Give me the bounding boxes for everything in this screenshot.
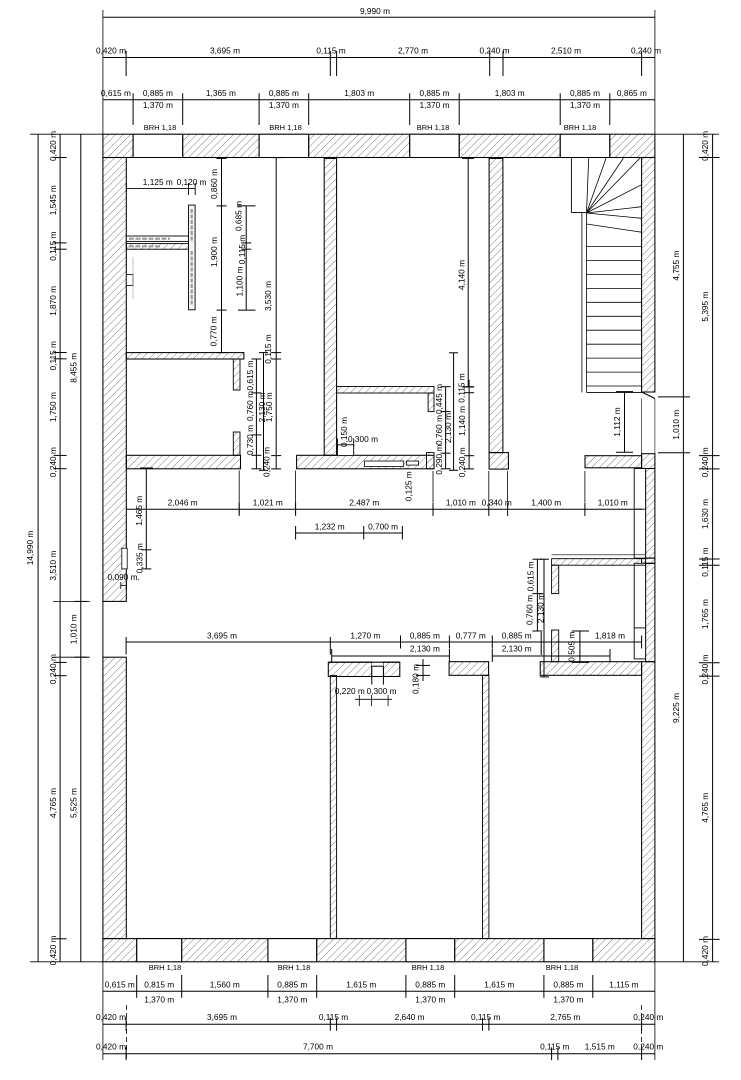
svg-text:1,115 m: 1,115 m: [609, 979, 638, 989]
svg-text:0,615 m: 0,615 m: [105, 979, 135, 989]
dim 1,112 stair: [624, 392, 626, 453]
left wall opening extension lines: [53, 600, 90, 602]
svg-text:2,487 m: 2,487 m: [349, 498, 379, 508]
hall band wall middle part: [297, 455, 434, 469]
lower band wall 2: [449, 662, 489, 676]
bottom dim chain B: [103, 1053, 655, 1055]
wall below top-middle room: [337, 387, 434, 394]
svg-text:1,010 m: 1,010 m: [446, 498, 476, 508]
svg-text:0,240 m: 0,240 m: [633, 1012, 663, 1022]
right wall outer shell at window 2: [646, 563, 655, 661]
svg-text:0,240 m: 0,240 m: [48, 447, 58, 477]
svg-text:0,885 m: 0,885 m: [553, 979, 583, 989]
lower interior wall A/B (vertical): [330, 675, 336, 938]
dashed extension line bottom-right: [641, 1005, 643, 1048]
svg-text:2,130 m: 2,130 m: [536, 593, 546, 623]
interior wall 0.24 (vertical, left of stair): [489, 158, 503, 452]
svg-text:2,770 m: 2,770 m: [398, 46, 428, 56]
svg-text:BRH 1,18: BRH 1,18: [278, 963, 311, 972]
right wall window 2 reveal box: [634, 563, 645, 659]
dim 0,180: [422, 659, 424, 681]
svg-text:2,130 m: 2,130 m: [257, 392, 267, 422]
svg-text:0,115 m: 0,115 m: [48, 231, 58, 260]
left dim chain L1: [59, 134, 61, 962]
door jamb upper (corridor wall): [233, 359, 240, 390]
right wall pier between windows: [642, 558, 655, 563]
top wall window openings (jambs and sill lines): [132, 134, 134, 157]
svg-text:0,860 m: 0,860 m: [209, 169, 219, 199]
svg-text:0,240 m: 0,240 m: [457, 447, 467, 477]
svg-text:0,115 m: 0,115 m: [319, 1012, 348, 1022]
svg-text:2,130 m: 2,130 m: [443, 413, 453, 443]
svg-text:1,370 m: 1,370 m: [553, 995, 583, 1005]
svg-text:0,115 m: 0,115 m: [263, 334, 273, 363]
terrace parapet band (right): [585, 456, 642, 468]
svg-text:0,685 m: 0,685 m: [234, 201, 244, 231]
svg-text:1,750 m: 1,750 m: [48, 392, 58, 422]
svg-text:1,100 m: 1,100 m: [235, 266, 245, 296]
svg-text:1,370 m: 1,370 m: [570, 100, 600, 110]
svg-text:0,615 m: 0,615 m: [245, 360, 255, 390]
svg-text:1,140 m: 1,140 m: [457, 406, 467, 436]
central interior wall (vertical): [324, 158, 336, 455]
svg-text:0,420 m: 0,420 m: [48, 131, 58, 161]
bottom dim chain windows row: [103, 990, 655, 992]
interior chain 0,685/0,115/1,100: [245, 206, 247, 310]
svg-text:1,465 m: 1,465 m: [134, 496, 144, 526]
row 641 sub left (2,130): [332, 655, 450, 657]
door jamb lower (corridor wall): [233, 432, 240, 455]
dim line 1,125/0,120: [126, 188, 195, 190]
left wall opening outer face line: [102, 601, 104, 657]
right exterior wall lower section: [642, 662, 655, 939]
thin wall line above L-wall: [552, 554, 646, 556]
svg-text:BRH 1,18: BRH 1,18: [412, 963, 445, 972]
svg-text:0,420 m: 0,420 m: [96, 1012, 126, 1022]
svg-text:0,125 m: 0,125 m: [404, 471, 414, 501]
svg-text:0,180 m: 0,180 m: [411, 664, 421, 694]
svg-text:0,090 m.: 0,090 m.: [108, 572, 140, 582]
svg-text:0,885 m: 0,885 m: [415, 979, 445, 989]
interior chain 3,530/0,115/1,750/0,240: [275, 158, 277, 469]
right wall window 1 reveal box: [634, 469, 645, 559]
svg-text:2,765 m: 2,765 m: [550, 1012, 580, 1022]
svg-text:1,900 m: 1,900 m: [209, 237, 219, 267]
svg-text:7,700 m: 7,700 m: [303, 1042, 333, 1052]
hall dim row 531 (1,232/0,700): [296, 532, 403, 534]
svg-text:3,530 m: 3,530 m: [263, 281, 273, 311]
dim 0,220/0,300: [355, 698, 392, 700]
svg-text:0,420 m: 0,420 m: [700, 131, 710, 161]
svg-text:BRH 1,18: BRH 1,18: [417, 123, 450, 132]
svg-text:0,115 m: 0,115 m: [471, 1012, 500, 1022]
svg-text:0,115 m: 0,115 m: [48, 341, 58, 370]
svg-text:4,755 m: 4,755 m: [671, 251, 681, 281]
overall dim line 14,990 m: [37, 134, 39, 962]
right wall door reveal diagonal: [642, 392, 655, 399]
svg-text:1,560 m: 1,560 m: [210, 979, 240, 989]
chain 0,615/0,760 right room: [536, 559, 538, 631]
svg-text:1,270 m: 1,270 m: [350, 630, 380, 640]
left exterior wall upper section: [103, 158, 126, 602]
hall dim row 509: [126, 508, 641, 510]
svg-text:1,370 m: 1,370 m: [143, 100, 173, 110]
svg-text:1,545 m: 1,545 m: [48, 185, 58, 215]
svg-text:0,115 m: 0,115 m: [457, 373, 467, 402]
thin hatched wall (horizontal strip 2): [126, 244, 188, 250]
dim chain row 2 (0,420/3,695/0,115/2,770/0,240/2,510/0,240): [103, 57, 655, 59]
svg-text:0,885 m: 0,885 m: [143, 88, 173, 98]
svg-text:0,865 m: 0,865 m: [617, 88, 647, 98]
staircase with winders: [570, 158, 572, 212]
svg-text:1,370 m: 1,370 m: [144, 995, 174, 1005]
svg-text:1,615 m: 1,615 m: [484, 979, 514, 989]
svg-text:1,112 m: 1,112 m: [612, 407, 622, 436]
hall band wall left part: [126, 455, 240, 469]
interior chain 0,445/0,760/0,290: [445, 387, 447, 469]
dim chain row 3 (windows): [103, 99, 655, 101]
svg-text:1,370 m: 1,370 m: [277, 995, 307, 1005]
svg-text:1,818 m: 1,818 m: [595, 630, 625, 640]
svg-text:0,420 m: 0,420 m: [96, 1042, 126, 1052]
dim 2,130 corridor: [263, 353, 265, 471]
hall dim row 641: [126, 641, 642, 643]
svg-text:0,885 m: 0,885 m: [410, 630, 440, 640]
svg-text:1,370 m: 1,370 m: [420, 100, 450, 110]
svg-text:0,505 m: 0,505 m: [567, 632, 577, 662]
right dim chain C (4,755/1,010/9,225): [682, 134, 684, 962]
svg-text:0,760 m: 0,760 m: [245, 391, 255, 421]
svg-text:0,240 m: 0,240 m: [700, 447, 710, 477]
svg-text:1,010 m: 1,010 m: [69, 614, 79, 644]
lower band wall 1 (left of chimney box): [328, 662, 372, 676]
svg-text:0,290 m: 0,290 m: [434, 445, 444, 475]
dim 4,140 room: [467, 158, 469, 387]
bottom dim chain A: [103, 1023, 655, 1025]
svg-text:0,240 m: 0,240 m: [633, 1042, 663, 1052]
right wall outer shell at window 1: [646, 469, 655, 559]
svg-text:0,115 m: 0,115 m: [316, 46, 345, 56]
wall stub above band 3: [552, 630, 559, 662]
svg-text:1,010 m: 1,010 m: [671, 410, 681, 440]
svg-text:0,815 m: 0,815 m: [144, 979, 174, 989]
svg-text:3,695 m: 3,695 m: [207, 630, 237, 640]
svg-text:0,240 m: 0,240 m: [631, 46, 661, 56]
svg-text:0,300 m: 0,300 m: [348, 434, 378, 444]
right dim chain B: [712, 134, 714, 962]
svg-text:2,046 m: 2,046 m: [168, 498, 198, 508]
svg-text:4,140 m: 4,140 m: [457, 260, 467, 290]
svg-text:2,640 m: 2,640 m: [395, 1012, 425, 1022]
light partition wall (horizontal strip 1): [126, 236, 188, 241]
svg-text:0,885 m: 0,885 m: [269, 88, 299, 98]
svg-text:3,695 m: 3,695 m: [207, 1012, 237, 1022]
svg-text:9,225 m: 9,225 m: [671, 693, 681, 723]
jamb below top-middle room wall: [428, 393, 434, 412]
svg-text:3,695 m: 3,695 m: [210, 46, 240, 56]
svg-text:0,615 m: 0,615 m: [101, 88, 131, 98]
svg-text:BRH 1,18: BRH 1,18: [269, 123, 302, 132]
lower band wall 3: [540, 662, 641, 676]
svg-text:1,021 m: 1,021 m: [253, 498, 283, 508]
interior chain 0,860/1,900/0,770: [221, 158, 223, 352]
dim 2,130 right room: [543, 559, 545, 677]
svg-text:1,125 m: 1,125 m: [143, 177, 173, 187]
svg-text:1,400 m: 1,400 m: [531, 498, 561, 508]
overall dim line 9,990 m: [103, 16, 655, 18]
bottom wall window openings: [136, 939, 138, 962]
band end lip: [427, 453, 435, 469]
svg-text:1,515 m: 1,515 m: [585, 1042, 615, 1052]
interior wall foot block: [489, 453, 508, 470]
svg-text:1,232 m: 1,232 m: [315, 521, 345, 531]
svg-text:0,885 m: 0,885 m: [502, 630, 532, 640]
right bottom extension line: [655, 961, 719, 963]
svg-text:0,885 m: 0,885 m: [570, 88, 600, 98]
svg-text:0,420 m: 0,420 m: [96, 46, 126, 56]
svg-text:BRH 1,18: BRH 1,18: [546, 963, 579, 972]
svg-text:0,615 m: 0,615 m: [526, 561, 536, 591]
svg-text:0,885 m: 0,885 m: [420, 88, 450, 98]
L-shaped wall horizontal (middle-right room): [552, 559, 646, 566]
svg-text:4,765 m: 4,765 m: [48, 788, 58, 818]
svg-text:0,335 m: 0,335 m: [134, 543, 144, 573]
svg-text:1,630 m: 1,630 m: [700, 499, 710, 529]
svg-text:0,115 m: 0,115 m: [540, 1042, 569, 1052]
lower interior wall B/C (vertical): [483, 675, 489, 938]
niche box on left wall: [126, 275, 133, 286]
right exterior wall segment below door: [642, 454, 655, 469]
interior chain 0,115/1,140/0,240: [468, 380, 470, 469]
dim 0,505: [579, 631, 581, 662]
svg-text:BRH 1,18: BRH 1,18: [144, 123, 177, 132]
svg-text:9,990 m: 9,990 m: [360, 6, 390, 16]
svg-text:BRH 1,18: BRH 1,18: [149, 963, 182, 972]
svg-text:0,115 m: 0,115 m: [700, 547, 710, 576]
left exterior wall lower section: [103, 657, 126, 938]
svg-text:0,730 m: 0,730 m: [245, 425, 255, 455]
svg-text:8,455 m: 8,455 m: [69, 353, 79, 383]
svg-text:0,240 m: 0,240 m: [480, 46, 510, 56]
svg-text:2,510 m: 2,510 m: [551, 46, 581, 56]
chimney box in lower band: [372, 663, 384, 685]
svg-text:1,803 m: 1,803 m: [495, 88, 525, 98]
svg-text:5,525 m: 5,525 m: [69, 788, 79, 818]
dim 1,465: [145, 468, 147, 569]
small shaft box on band: [338, 445, 354, 456]
svg-text:0,220 m: 0,220 m: [335, 686, 365, 696]
dashed extension line bottom-left: [126, 1005, 128, 1060]
interior wall above lower-left room: [126, 353, 244, 359]
dim 0,090: [121, 585, 127, 587]
svg-text:4,765 m: 4,765 m: [700, 793, 710, 823]
svg-text:0,700 m: 0,700 m: [368, 521, 398, 531]
light partition wall (vertical, top-left room): [189, 205, 196, 310]
svg-text:3,510 m: 3,510 m: [48, 551, 58, 581]
svg-text:0,885 m: 0,885 m: [277, 979, 307, 989]
svg-text:14,990 m: 14,990 m: [25, 531, 35, 566]
lower band wall 1 (right of chimney box): [383, 662, 399, 676]
svg-text:0,770 m: 0,770 m: [209, 316, 219, 346]
svg-text:0,240 m: 0,240 m: [700, 654, 710, 684]
L-shaped wall vertical leg: [552, 565, 559, 593]
svg-text:1,370 m: 1,370 m: [415, 995, 445, 1005]
svg-text:0,777 m: 0,777 m: [456, 630, 486, 640]
svg-text:1,870 m: 1,870 m: [48, 286, 58, 316]
svg-text:0,120 m: 0,120 m: [177, 177, 207, 187]
svg-text:0,300 m: 0,300 m: [367, 686, 397, 696]
top exterior wall (hatched segments): [103, 134, 133, 157]
right top extension line: [655, 133, 719, 135]
sill inset 1 in middle band: [365, 461, 404, 466]
bottom exterior wall (hatched segments): [103, 939, 137, 962]
svg-text:0,445 m: 0,445 m: [434, 384, 444, 414]
svg-text:0,760 m: 0,760 m: [525, 595, 535, 625]
svg-text:BRH 1,18: BRH 1,18: [564, 123, 597, 132]
niche in left wall lower (0.09m): [122, 548, 127, 569]
bottom corner extension lines: [102, 962, 104, 1060]
svg-text:1,010 m: 1,010 m: [598, 498, 628, 508]
left dim chain L2: [80, 134, 82, 962]
row 641 sub right (2,130): [492, 655, 610, 657]
svg-text:1,765 m: 1,765 m: [700, 599, 710, 629]
svg-text:0,240 m: 0,240 m: [48, 654, 58, 684]
svg-text:1,365 m: 1,365 m: [206, 88, 236, 98]
svg-text:1,615 m: 1,615 m: [346, 979, 376, 989]
right exterior wall upper section (beside stair): [642, 158, 655, 393]
svg-text:0,420 m: 0,420 m: [48, 935, 58, 965]
svg-text:1,370 m: 1,370 m: [269, 100, 299, 110]
svg-text:1,803 m: 1,803 m: [344, 88, 374, 98]
dim 2,130 small room: [453, 353, 455, 471]
dim 0,300 box ticks: [337, 439, 339, 448]
svg-text:0,115 m: 0,115 m: [237, 235, 247, 264]
sill inset 2 in middle band: [406, 461, 418, 465]
hall row 509 extension stubs: [432, 471, 434, 502]
svg-text:5,395 m: 5,395 m: [700, 292, 710, 322]
interior chain 0,615/0,760/0,730: [255, 359, 257, 469]
svg-text:2,130 m: 2,130 m: [502, 643, 532, 653]
svg-text:2,130 m: 2,130 m: [410, 643, 440, 653]
